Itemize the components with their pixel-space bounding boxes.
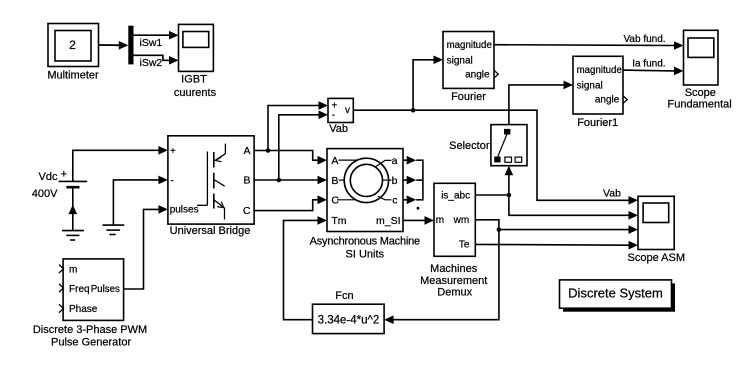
svg-text:signal: signal	[447, 56, 473, 67]
svg-text:Discrete System: Discrete System	[568, 286, 663, 301]
svg-text:wm: wm	[453, 215, 470, 226]
svg-text:b: b	[392, 175, 398, 187]
svg-text:magnitude: magnitude	[577, 65, 622, 76]
svg-text:Fourier1: Fourier1	[577, 117, 618, 129]
svg-text:is_abc: is_abc	[441, 190, 470, 201]
svg-text:Measurement: Measurement	[420, 275, 487, 287]
svg-text:+: +	[170, 146, 176, 157]
svg-text:Universal Bridge: Universal Bridge	[170, 225, 251, 237]
svg-text:Selector: Selector	[449, 140, 490, 152]
svg-text:pulses: pulses	[170, 205, 199, 216]
svg-text:cuurents: cuurents	[174, 87, 217, 99]
svg-text:Ia fund.: Ia fund.	[632, 59, 665, 70]
svg-text:m_SI: m_SI	[376, 215, 401, 227]
svg-text:Asynchronous Machine: Asynchronous Machine	[310, 235, 420, 247]
svg-text:B: B	[243, 175, 250, 187]
svg-text:Tm: Tm	[331, 215, 346, 227]
svg-text:SI Units: SI Units	[346, 248, 385, 260]
svg-text:A: A	[331, 155, 338, 167]
svg-text:v: v	[345, 105, 350, 116]
svg-text:angle: angle	[465, 70, 490, 81]
svg-text:Discrete 3-Phase PWM: Discrete 3-Phase PWM	[33, 324, 147, 336]
svg-text:IGBT: IGBT	[181, 73, 207, 85]
svg-text:Pulse Generator: Pulse Generator	[51, 337, 131, 349]
svg-text:a: a	[392, 155, 398, 167]
svg-text:c: c	[392, 195, 397, 207]
svg-text:Fundamental: Fundamental	[667, 98, 731, 110]
svg-text:Multimeter: Multimeter	[47, 70, 99, 82]
svg-text:angle: angle	[595, 94, 620, 105]
svg-text:Fourier: Fourier	[451, 91, 486, 103]
svg-text:Freq: Freq	[69, 284, 90, 295]
svg-text:iSw1: iSw1	[140, 37, 163, 49]
svg-text:Te: Te	[459, 239, 470, 250]
svg-text:signal: signal	[577, 80, 603, 91]
svg-text:Fcn: Fcn	[335, 290, 353, 302]
svg-text:m: m	[436, 215, 444, 226]
svg-text:400V: 400V	[32, 188, 58, 200]
svg-text:Pulses: Pulses	[91, 284, 120, 295]
svg-text:Vab: Vab	[603, 188, 621, 200]
svg-text:2: 2	[69, 38, 76, 52]
svg-text:C: C	[331, 195, 339, 207]
svg-text:3.34e-4*u^2: 3.34e-4*u^2	[318, 314, 380, 326]
svg-text:Vdc: Vdc	[39, 171, 58, 183]
svg-text:C: C	[243, 205, 251, 217]
svg-text:+: +	[61, 169, 67, 181]
svg-text:-: -	[171, 176, 174, 187]
svg-text:magnitude: magnitude	[447, 40, 492, 51]
svg-text:Machines: Machines	[430, 263, 478, 275]
svg-text:-: -	[332, 110, 335, 121]
svg-text:B: B	[331, 175, 338, 187]
svg-text:Vab: Vab	[329, 123, 348, 135]
svg-text:Demux: Demux	[437, 286, 472, 298]
svg-text:Scope ASM: Scope ASM	[628, 252, 685, 264]
svg-text:Phase: Phase	[69, 304, 98, 315]
svg-text:A: A	[243, 145, 250, 157]
svg-text:iSw2: iSw2	[140, 57, 163, 69]
svg-text:Vab fund.: Vab fund.	[624, 34, 666, 45]
svg-text:m: m	[69, 264, 77, 275]
